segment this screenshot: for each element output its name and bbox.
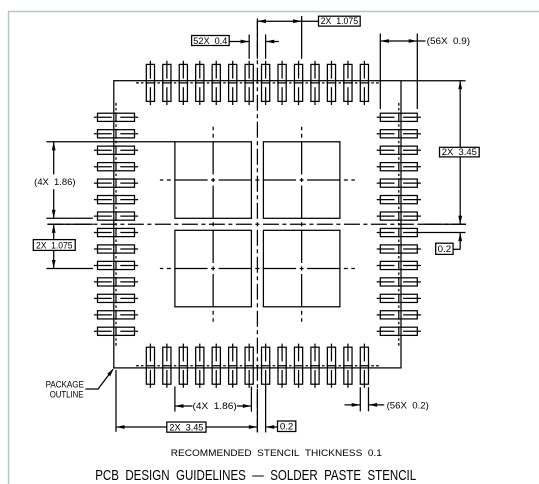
pad 6 (left) [94,196,138,204]
svg-text:2X 1.075: 2X 1.075 [321,16,359,26]
center mark vertical line, square column 2 [301,127,303,322]
dimension 0.2 (right, centerline to first pad center) [421,233,466,255]
pad 1 (top) [146,61,154,105]
pad 1 (right) [377,113,421,121]
pad 6 (bottom) [229,344,237,388]
svg-text:2X 3.45: 2X 3.45 [442,147,477,157]
pad 13 (right) [377,311,421,319]
svg-text:RECOMMENDED STENCIL THICKNES: RECOMMENDED STENCIL THICKNESS 0.1 [171,448,382,459]
pad row centerline top [136,82,379,84]
svg-text:(56X 0.2): (56X 0.2) [387,400,429,410]
dimension (56X 0.2) (pad width) [345,387,429,411]
pad 3 (left) [94,146,138,154]
svg-text:(4X 1.86): (4X 1.86) [193,401,237,411]
svg-text:PACKAGE: PACKAGE [46,380,84,390]
pad 5 (left) [94,179,138,187]
label PACKAGE OUTLINE with leader arrow [46,368,114,399]
pad column centerline left [115,103,117,346]
title PCB DESIGN GUIDELINES - SOLDER PASTE STENCIL [95,467,416,484]
dimension (4X 1.86) (bottom, square size) [175,387,252,412]
pad 5 (bottom) [212,344,220,388]
svg-text:OUTLINE: OUTLINE [50,389,84,399]
pad 1 (left) [94,113,138,121]
pad 10 (top) [294,61,302,105]
package outline [114,81,401,368]
pad 9 (right) [377,245,421,253]
pad 8 (right) [377,228,421,236]
pad 4 (left) [94,163,138,171]
center mark vertical line, square column 1 [212,127,214,322]
thermal pad aperture S2 (top-right) [263,142,340,219]
pad 8 (left) [94,228,138,236]
pad 2 (bottom) [163,344,171,388]
dimension 2X 1.075 (top, center to square column centerline) [257,16,360,59]
pad 2 (right) [377,130,421,138]
pad row centerline bottom [136,365,379,367]
pad 12 (top) [327,61,335,105]
pad 6 (right) [377,196,421,204]
dimension 2X 3.45 (right, centerline to pad row) [401,81,479,225]
pad 14 (left) [94,327,138,335]
pad 7 (top) [245,61,253,105]
pad 13 (bottom) [344,344,352,388]
pad 13 (left) [94,311,138,319]
pad 14 (bottom) [360,344,368,388]
svg-text:2X 3.45: 2X 3.45 [169,422,203,432]
pad 5 (top) [212,61,220,105]
thermal pad aperture S3 (bottom-left) [175,230,252,306]
pad 3 (right) [377,146,421,154]
pad 5 (right) [377,179,421,187]
dimension (4X 1.86) (left, square size) [34,142,175,219]
svg-text:0.2: 0.2 [280,421,294,431]
svg-text:(4X 1.86): (4X 1.86) [34,177,75,187]
pad 10 (bottom) [294,344,302,388]
pad 1 (bottom) [146,344,154,388]
svg-text:52X 0.4: 52X 0.4 [193,36,227,46]
pad 9 (left) [94,245,138,253]
svg-text:PCB DESIGN GUIDELINES — SO: PCB DESIGN GUIDELINES — SOLDER PASTE STE… [95,467,416,484]
svg-text:0.2: 0.2 [438,244,452,254]
pad 14 (top) [360,61,368,105]
pad 11 (right) [377,278,421,286]
pad 14 (right) [377,327,421,335]
pad 3 (top) [179,61,187,105]
pad 3 (bottom) [179,344,187,388]
dimension 2X 1.075 (left, centerline to square row centerline) [33,224,93,268]
pad 6 (top) [229,61,237,105]
thermal pad aperture S1 (top-left) [175,142,252,219]
center mark horizontal line, square row 2 [160,268,355,270]
pad 4 (right) [377,163,421,171]
svg-text:(56X 0.9): (56X 0.9) [427,36,470,46]
pad 10 (right) [377,261,421,269]
pad 12 (left) [94,294,138,302]
pad 2 (left) [94,130,138,138]
pad 7 (right) [377,212,421,220]
pad 8 (top) [262,61,270,105]
dimension 0.2 (bottom, centerline to first pad center) [266,387,296,433]
pad 4 (bottom) [196,344,204,388]
package horizontal centerline [47,223,466,225]
pad 12 (right) [377,294,421,302]
thermal pad aperture S4 (bottom-right) [263,230,340,306]
pad 10 (left) [94,261,138,269]
pad 7 (left) [94,212,138,220]
pad 8 (bottom) [262,344,270,388]
pad 11 (top) [311,61,319,105]
pad 11 (left) [94,278,138,286]
center mark horizontal line, square row 1 [160,179,355,181]
pad 7 (bottom) [245,344,253,388]
pad column centerline right [398,103,400,346]
pad 4 (top) [196,61,204,105]
note RECOMMENDED STENCIL THICKNESS 0.1 [171,448,382,459]
package vertical centerline [256,19,258,433]
pad 9 (bottom) [278,344,286,388]
dimension (56X 0.9) (pad length) [380,34,470,110]
pad 2 (top) [163,61,171,105]
dimension 52X 0.4 (pad pitch) [192,35,279,59]
svg-text:2X 1.075: 2X 1.075 [36,241,73,251]
pad 11 (bottom) [311,344,319,388]
pad 13 (top) [344,61,352,105]
pad 12 (bottom) [327,344,335,388]
pad 9 (top) [278,61,286,105]
dimension 2X 3.45 (bottom, pad row to centerline) [116,370,257,432]
